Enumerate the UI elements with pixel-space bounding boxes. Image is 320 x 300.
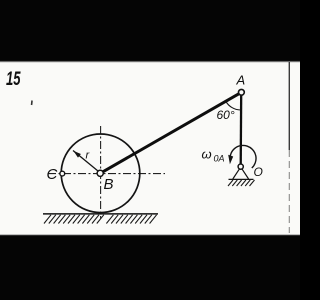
scanned paper band	[0, 62, 300, 236]
omega rotation arc arrow	[230, 145, 256, 168]
svg-text:0A: 0A	[214, 154, 225, 164]
svg-text:A: A	[236, 73, 246, 88]
hub pin B	[97, 170, 103, 176]
svg-text:O: O	[254, 165, 263, 179]
svg-text:60°: 60°	[217, 108, 235, 122]
pivot pin O	[238, 164, 243, 169]
radius arrow r from B to rim	[73, 151, 100, 173]
svg-text:C: C	[47, 166, 58, 183]
wheel circle, center B	[61, 134, 140, 213]
speck mark	[31, 100, 33, 105]
ground under wheel: top line	[43, 213, 158, 215]
svg-text:B: B	[104, 176, 114, 193]
page edge vertical line	[288, 62, 290, 150]
wheel centerline vertical (dash-dot)	[100, 126, 102, 219]
crank link OA	[240, 92, 243, 166]
point C on rim	[60, 171, 65, 176]
pivot base line	[229, 178, 254, 180]
omega arrowhead	[228, 155, 233, 164]
pivot triangle support	[233, 169, 249, 179]
pin A	[239, 89, 245, 95]
ground under wheel: hatching	[44, 215, 157, 224]
svg-text:ω: ω	[202, 147, 212, 162]
angle arc 60 at A	[226, 101, 241, 110]
connecting rod AB	[102, 92, 241, 172]
svg-text:15: 15	[6, 69, 21, 90]
wheel centerline horizontal (dash-dot)	[48, 173, 165, 175]
pivot hatching	[228, 180, 255, 186]
